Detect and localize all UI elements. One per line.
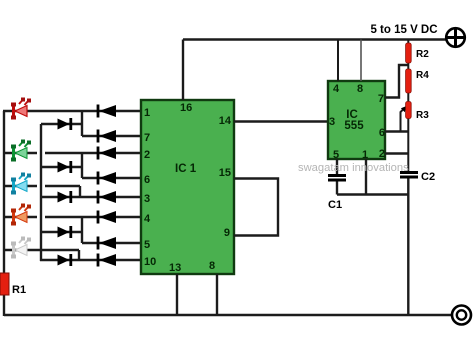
LED row 2 green: wire with gap at bus <box>3 152 37 154</box>
wire: pin14 to 555 pin3 <box>234 120 328 122</box>
capacitor C1 <box>336 159 338 174</box>
diode D7 (pin5 row) <box>98 237 116 250</box>
svg-text:8: 8 <box>209 260 215 272</box>
wire: left diode row c <box>41 231 82 233</box>
wire: pin10 row <box>40 259 141 261</box>
diode D2 (pin7 row) <box>98 130 116 143</box>
supply positive terminal <box>446 28 465 47</box>
resistor R1 <box>0 273 9 295</box>
LED row 5 white: wire joined to bus, jog down <box>3 249 79 251</box>
svg-text:5 to 15 V DC: 5 to 15 V DC <box>370 24 437 36</box>
svg-text:6: 6 <box>144 174 150 186</box>
wire: anode bus vertical x=41 <box>40 124 42 261</box>
LED3 cyan <box>11 173 31 195</box>
wire: pin3 row <box>40 196 141 198</box>
svg-text:2: 2 <box>144 149 150 161</box>
LED row 4 orange: wire with gap at bus <box>3 216 37 218</box>
resistor R4 <box>406 69 412 93</box>
wire: left diode row b <box>41 166 82 168</box>
diode D6 (pin4 row) <box>98 211 116 224</box>
svg-text:3: 3 <box>329 116 335 128</box>
wire: 555 pin7 to R2/R4 junction <box>385 65 408 98</box>
svg-text:1: 1 <box>144 107 150 119</box>
wire: R3 wiper arrow <box>401 109 405 132</box>
wire: pin15-pin9 loop <box>234 179 278 236</box>
svg-text:555: 555 <box>344 120 364 132</box>
svg-text:7: 7 <box>144 132 150 144</box>
wire: resistor chain vertical <box>407 40 409 172</box>
wire: bottom ground rail <box>4 314 452 316</box>
diode Dd (matrix) <box>58 226 71 238</box>
svg-text:C2: C2 <box>421 171 435 183</box>
wire: left diode row a <box>41 123 82 125</box>
resistor R2 <box>406 43 412 63</box>
wire: 555 pin4 to rail <box>337 40 339 82</box>
diode De (pin10 row inline) <box>58 254 71 266</box>
capacitor C2 <box>400 171 418 174</box>
svg-text:2: 2 <box>379 148 385 160</box>
LED1 red <box>11 98 31 120</box>
diode D8 (pin10 row) <box>98 254 116 267</box>
wire: 555 pin2 to chain <box>385 152 409 154</box>
diode Da (matrix) <box>58 118 71 130</box>
svg-text:R2: R2 <box>416 49 429 60</box>
svg-text:9: 9 <box>224 227 230 239</box>
wire: 555 pin1 down <box>365 159 367 195</box>
wire: pin13 to ground <box>176 274 178 315</box>
diode D3 (pin2 row) <box>98 147 116 160</box>
svg-text:3: 3 <box>144 193 150 205</box>
svg-text:16: 16 <box>180 102 192 114</box>
wire: left LED bus vertical <box>3 111 5 276</box>
wire: pin7 row <box>82 135 141 137</box>
IC U2 555 <box>328 81 385 159</box>
LED row 3 cyan: wire with gap at bus, jog down <box>3 185 37 187</box>
svg-text:13: 13 <box>169 262 181 274</box>
svg-text:8: 8 <box>357 83 363 95</box>
svg-text:7: 7 <box>378 93 384 105</box>
diode Db (matrix) <box>58 161 71 173</box>
wire: pair bus 4 <box>81 217 83 243</box>
wire: 555 pin6 to chain <box>385 130 409 132</box>
diode D4 (pin6 row) <box>98 172 116 185</box>
svg-text:C1: C1 <box>328 199 342 211</box>
wire: pin8 to ground <box>216 274 218 315</box>
svg-text:4: 4 <box>144 213 151 225</box>
svg-text:R3: R3 <box>416 110 429 121</box>
LED4 orange <box>11 204 31 226</box>
diode Dc (pin3 row inline) <box>58 191 71 203</box>
svg-text:5: 5 <box>144 239 150 251</box>
wire: pin6 row <box>82 177 141 179</box>
LED2 green <box>11 140 31 162</box>
svg-text:15: 15 <box>219 167 231 179</box>
IC U1 4017 <box>141 100 234 274</box>
svg-text:IC 1: IC 1 <box>175 163 197 175</box>
svg-text:14: 14 <box>219 115 232 127</box>
wire: 555 pin8 to rail <box>360 40 362 82</box>
wire: pair bus 1 <box>81 111 83 136</box>
negative terminal <box>452 306 471 325</box>
wire: pin16 to supply rail <box>182 40 184 101</box>
svg-text:6: 6 <box>379 127 385 139</box>
svg-text:R4: R4 <box>416 70 429 81</box>
diode D1 (pin1 row) <box>98 105 116 118</box>
diode D5 (pin3 row) <box>98 191 116 204</box>
svg-text:10: 10 <box>144 256 156 268</box>
LED row 1 red: wire <box>3 110 141 112</box>
LED5 white <box>11 237 31 259</box>
wire: pair bus 2 <box>81 153 83 178</box>
wire: pin5 row <box>82 242 141 244</box>
preset R3 <box>406 102 412 119</box>
wire: supply rail <box>183 38 446 40</box>
svg-text:R1: R1 <box>12 284 26 296</box>
wire: C1/pin1 ground link rail <box>337 193 408 195</box>
svg-text:4: 4 <box>333 83 340 95</box>
wire: R1 bottom lead <box>3 294 5 316</box>
svg-text:swagatam innovations: swagatam innovations <box>298 162 409 174</box>
